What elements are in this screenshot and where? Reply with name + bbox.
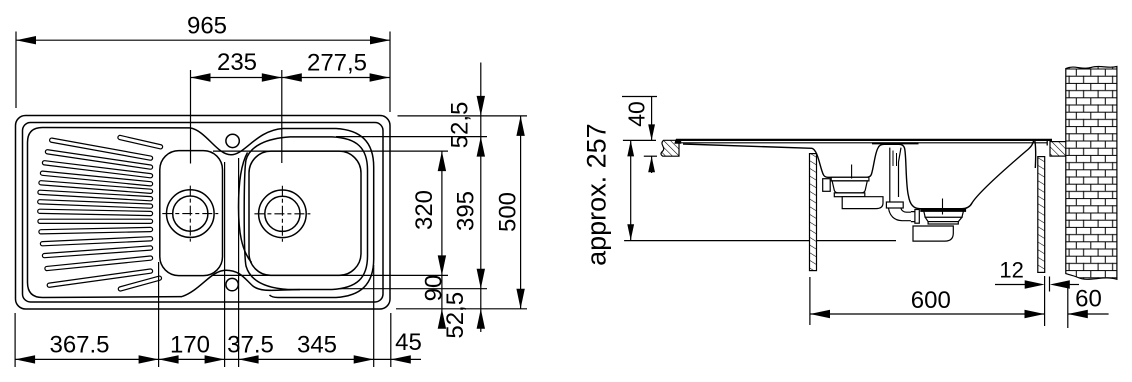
svg-text:52,5: 52,5 <box>442 292 469 339</box>
60 ext line (wall face) <box>1067 282 1069 328</box>
svg-text:367.5: 367.5 <box>49 332 109 359</box>
60 dim tail <box>1068 313 1109 315</box>
svg-text:320: 320 <box>411 190 438 230</box>
sink top rim line (thick) <box>676 139 1052 141</box>
svg-text:277,5: 277,5 <box>307 50 367 77</box>
sink outer right wall <box>1034 141 1037 168</box>
large bowl outer rim left edge <box>239 153 252 263</box>
svg-text:approx. 257: approx. 257 <box>582 123 612 266</box>
overflow collar <box>886 202 903 208</box>
600 ext lines <box>809 277 811 325</box>
rib <box>45 248 151 256</box>
rib <box>43 173 151 184</box>
rib <box>47 258 151 268</box>
divider top (thick) <box>872 142 919 144</box>
dimension lines / extension lines <box>15 32 527 368</box>
countertop left stub (hatched) <box>661 140 679 156</box>
cabinet left panel (hatched) <box>810 154 817 271</box>
large bowl rim inner contour <box>244 137 367 290</box>
large bowl drain <box>259 190 307 238</box>
rib <box>48 152 151 167</box>
small strainer body <box>832 181 867 193</box>
drain centerlines <box>162 186 310 242</box>
40 dim extension lines <box>622 97 896 241</box>
svg-text:37.5: 37.5 <box>227 332 274 359</box>
rib <box>40 202 151 206</box>
svg-text:500: 500 <box>495 192 522 232</box>
svg-text:40: 40 <box>624 101 650 127</box>
sink outer edge <box>16 116 391 310</box>
large strainer flange (thick) <box>921 209 966 212</box>
tap hole bottom <box>226 278 238 290</box>
overflow elbow <box>889 208 911 221</box>
rib <box>40 192 151 198</box>
large strainer body <box>924 211 964 217</box>
svg-text:345: 345 <box>297 332 337 359</box>
rib <box>43 239 151 244</box>
small strainer flange <box>831 177 869 181</box>
sink left rim clamp (solid) <box>674 139 681 143</box>
rib <box>45 163 151 176</box>
svg-text:12: 12 <box>999 258 1023 283</box>
large trap box <box>913 226 953 241</box>
overflow pipe <box>889 148 891 202</box>
drainboard ribs <box>40 138 161 289</box>
rib <box>52 140 151 158</box>
tap hole top <box>226 134 239 147</box>
sink back rim edge <box>681 142 1047 144</box>
600 dim line <box>810 313 1045 315</box>
large bowl base contour <box>249 151 361 275</box>
svg-text:170: 170 <box>170 332 210 359</box>
ref line bottom of trap <box>624 240 896 242</box>
dimension arrows <box>15 36 525 364</box>
svg-text:52,5: 52,5 <box>447 102 474 149</box>
12 dim lines <box>995 284 1026 286</box>
svg-text:235: 235 <box>217 49 257 76</box>
rib <box>40 219 151 224</box>
small trap box <box>842 197 883 209</box>
inner surface boundary (drainboard + top saddle + large bowl outer rim) <box>28 128 374 298</box>
sink rim inner edge <box>23 123 384 303</box>
small strainer left outlet stub <box>823 179 831 192</box>
cabinet right panel (hatched) <box>1038 157 1045 273</box>
small bowl drain <box>167 190 215 238</box>
svg-text:45: 45 <box>395 329 422 356</box>
svg-text:60: 60 <box>1075 286 1102 313</box>
rib <box>41 183 151 192</box>
small strainer nut <box>834 193 865 197</box>
bowl centerline ticks <box>852 165 943 215</box>
large strainer cup <box>925 217 962 221</box>
rib <box>40 211 151 213</box>
rib <box>41 230 151 232</box>
small bowl contour <box>160 151 223 276</box>
12 ext line (rim edge) <box>1049 277 1051 292</box>
right rim lip tick <box>1046 141 1048 146</box>
approx.257 dim line <box>630 140 632 240</box>
countertop right stub (hatched) <box>1050 142 1068 157</box>
brick wall <box>1066 66 1117 279</box>
large strainer nut <box>928 222 958 224</box>
short rib <box>120 278 159 289</box>
svg-text:395: 395 <box>453 191 480 231</box>
dimension labels <box>49 13 521 359</box>
elbow flange ring <box>915 210 919 224</box>
svg-text:965: 965 <box>187 13 227 40</box>
drainboard slope + small bowl + divider + large bowl profile <box>683 141 1034 209</box>
bottom saddle over tap hole <box>182 270 300 296</box>
rib <box>49 271 150 285</box>
svg-text:600: 600 <box>911 287 951 314</box>
short rib <box>120 138 161 147</box>
